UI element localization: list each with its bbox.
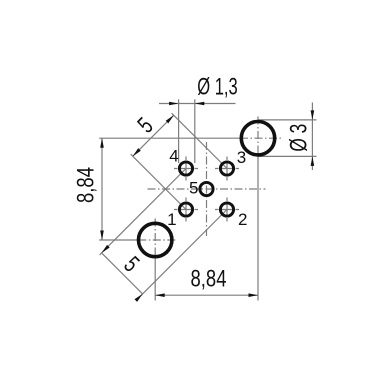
mounting hole B1 (Ø3) xyxy=(241,122,274,155)
svg-text:8,84: 8,84 xyxy=(72,167,99,203)
hole 1 xyxy=(179,203,192,216)
arrow 5 upper sw xyxy=(133,148,141,156)
dim Ø3 line xyxy=(311,103,313,171)
dim 5 lower ext R (through hole 2) xyxy=(141,210,227,296)
dim 5 lower line xyxy=(102,253,143,294)
svg-text:3: 3 xyxy=(237,148,246,167)
svg-text:2: 2 xyxy=(238,210,247,229)
dim 8,84 left ext bottom xyxy=(99,239,138,241)
centerline B2 vertical xyxy=(154,219,156,257)
arrow 8,84 bottom left xyxy=(155,293,165,297)
centerline B1 vertical xyxy=(257,117,259,157)
dim 8,84 bottom line xyxy=(155,294,258,296)
arrow Ø1,3 left xyxy=(169,102,179,106)
dim Ø1,3 ext left xyxy=(178,99,180,163)
arrow Ø3 top xyxy=(311,110,315,120)
dim 5 lower ext Q (through hole 4) xyxy=(100,169,186,255)
crosshair hole3 xyxy=(215,168,239,170)
dim 5 upper line xyxy=(133,115,174,156)
dim 5 upper ext B (through hole 3) xyxy=(172,113,227,168)
arrow 5 upper ne xyxy=(166,115,174,123)
hole 5 xyxy=(200,182,213,195)
arrow 5 lower nw xyxy=(102,245,110,253)
centerline B2 horizontal xyxy=(138,239,176,241)
dim 8,84 bottom ext right xyxy=(257,156,259,300)
svg-text:1: 1 xyxy=(167,210,176,229)
crosshair hole4 xyxy=(174,168,198,170)
mounting hole B2 (Ø3) xyxy=(139,223,172,256)
svg-text:4: 4 xyxy=(169,146,178,165)
hole 4 xyxy=(179,162,192,175)
arrow 8,84 bottom right xyxy=(249,293,259,297)
svg-text:5: 5 xyxy=(189,179,198,198)
centerline hole5 vertical xyxy=(206,142,208,236)
svg-text:Ø 3: Ø 3 xyxy=(286,124,312,152)
dim Ø1,3 ext right xyxy=(194,99,196,163)
arrow 8,84 left bottom xyxy=(100,231,104,241)
svg-text:8,84: 8,84 xyxy=(191,265,227,292)
dim 8,84 bottom ext left xyxy=(154,257,156,301)
dim Ø3 ext top xyxy=(259,119,317,121)
dim Ø3 ext bottom xyxy=(259,155,317,157)
dim 5 upper ext A (through hole 1) xyxy=(131,154,186,209)
arrow Ø3 bottom xyxy=(311,156,315,166)
dim 8,84 left line xyxy=(101,138,103,240)
arrow 5 lower se xyxy=(135,294,143,302)
arrow 8,84 left top xyxy=(100,138,104,148)
hole 2 xyxy=(220,203,233,216)
arrow Ø1,3 right xyxy=(195,102,205,106)
centerline hole5 horizontal xyxy=(148,188,266,190)
crosshair hole1 xyxy=(174,209,198,211)
centerline B1 horizontal xyxy=(240,137,283,139)
crosshair hole2 xyxy=(215,209,239,211)
dim 8,84 left ext top xyxy=(99,137,240,139)
hole 3 xyxy=(220,162,233,175)
svg-text:Ø 1,3: Ø 1,3 xyxy=(197,73,237,100)
dim Ø1,3 line xyxy=(159,103,236,105)
